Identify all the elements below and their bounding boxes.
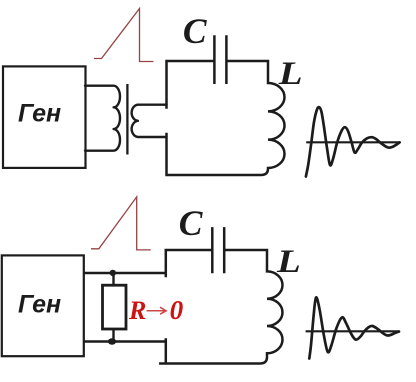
svg-text:Ген: Ген — [18, 290, 61, 318]
svg-text:L: L — [278, 55, 303, 92]
svg-text:0: 0 — [170, 294, 184, 325]
svg-text:L: L — [276, 243, 301, 280]
svg-text:Ген: Ген — [18, 100, 61, 128]
svg-text:C: C — [179, 203, 203, 243]
svg-text:C: C — [183, 11, 207, 51]
svg-text:R: R — [128, 296, 146, 325]
